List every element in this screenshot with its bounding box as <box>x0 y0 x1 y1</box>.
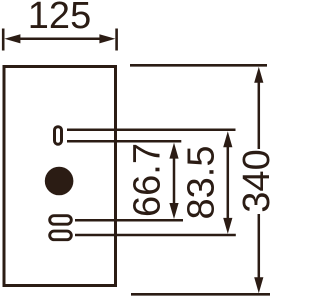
dim 125 line <box>16 38 104 41</box>
top extension line (340 upper reference) <box>130 64 267 67</box>
dim 66.7 arrow up <box>169 143 178 159</box>
bottom extension line (340 lower reference) <box>131 293 270 296</box>
dim 125 arrow left <box>4 34 20 43</box>
knockout filled circle <box>45 167 74 196</box>
svg-text:125: 125 <box>28 0 91 37</box>
dim 125 extension tick right <box>115 29 118 51</box>
leader A from slot hole to 83.5 <box>67 129 236 132</box>
oval hole 2 <box>50 231 72 240</box>
oval hole 1 <box>50 216 72 225</box>
dim 83.5 line <box>227 143 230 221</box>
dim 83.5 arrow up <box>223 131 232 147</box>
slot hole top <box>55 127 62 145</box>
dim 125 extension tick left <box>2 29 5 51</box>
dim 66.7 line <box>173 155 176 206</box>
dim 125 arrow right <box>99 34 115 43</box>
leader B from slot hole to 66.7 <box>67 140 181 143</box>
dim 83.5 arrow down <box>223 218 232 234</box>
dim 340 line lower segment <box>258 214 261 281</box>
leader C from oval hole 1 <box>75 219 183 222</box>
svg-text:83.5: 83.5 <box>181 146 223 220</box>
dim 66.7 arrow down <box>169 203 178 219</box>
dim 340 arrow down <box>254 277 263 293</box>
dim 340 arrow up <box>254 67 263 83</box>
svg-text:340: 340 <box>236 149 274 212</box>
fixture body outline <box>4 67 116 286</box>
dim 340 line upper segment <box>258 79 261 149</box>
svg-text:66.7: 66.7 <box>127 143 169 217</box>
leader D from oval hole 2 <box>75 234 236 237</box>
